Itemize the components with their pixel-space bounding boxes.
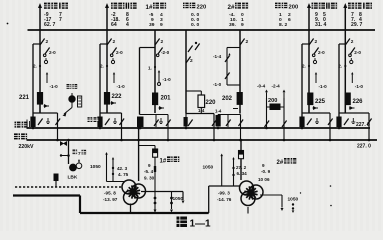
wire T1 tertiary branch — [139, 146, 155, 150]
svg-text:31. 4: 31. 4 — [315, 22, 326, 28]
svg-text:-1-0: -1-0 — [50, 84, 59, 89]
bus-tie 200 left riser with arrow -0-4 — [257, 84, 269, 129]
svg-text:3: 3 — [160, 17, 163, 23]
svg-text:2: 2 — [190, 58, 193, 64]
bus 北母 (north 220kV bus) — [27, 139, 378, 141]
bus voltage reading north — [357, 143, 371, 149]
wire T1 10kV drop B glyphs — [154, 166, 157, 213]
breaker T1 35kV — [153, 149, 158, 213]
svg-text:1—1: 1—1 — [190, 219, 212, 230]
svg-text:7: 7 — [78, 151, 81, 156]
svg-text:1050: 1050 — [90, 164, 101, 170]
svg-text:1: 1 — [279, 12, 282, 18]
wire: 220kV line corridor (top horizontal) — [28, 29, 376, 31]
transformer bay label 2#主变 with readings — [228, 3, 249, 29]
svg-text:-2-4: -2-4 — [272, 84, 281, 89]
transformer T2 (2#主变) — [240, 181, 264, 206]
station PT tap label — [67, 84, 78, 89]
feeder arrow and label 黔西I线 with readings — [343, 3, 372, 30]
station PT symbol — [69, 93, 82, 108]
breaker 200 (horizontal) — [265, 98, 285, 141]
breaker 225 — [307, 93, 325, 114]
svg-text:200: 200 — [268, 98, 277, 104]
bay 2#主变 bus selector — [216, 115, 244, 142]
bus-tie 220 upper switches — [186, 30, 200, 114]
svg-text:201: 201 — [161, 96, 172, 102]
bay 2#主变 main line — [240, 30, 249, 114]
bus 10kV dashed — [15, 186, 122, 188]
wire T1 10kV drop A — [170, 192, 173, 213]
wire PT to south bus — [63, 108, 73, 117]
breaker T2 35kV — [239, 151, 244, 159]
wire riser to T2 low side — [209, 186, 241, 213]
svg-text:7: 7 — [59, 17, 62, 23]
svg-text:4. 75: 4. 75 — [118, 172, 129, 177]
svg-text:227. 0: 227. 0 — [357, 143, 371, 149]
svg-text:227. 8: 227. 8 — [356, 122, 370, 128]
feeder arrow and label 大方I线 with P/Q/I readings — [38, 3, 68, 30]
wire T1 HV feed — [137, 127, 140, 181]
wire LBK tap riser — [60, 139, 70, 164]
bay 大方II线 switches and legs — [97, 30, 125, 141]
bay 1#主变 bypass leg — [140, 48, 156, 115]
svg-text:220: 220 — [197, 4, 207, 10]
svg-text:2-0: 2-0 — [116, 50, 123, 55]
svg-text:-14. 76: -14. 76 — [217, 197, 232, 202]
svg-text:-99. 3: -99. 3 — [218, 191, 230, 196]
svg-text:2: 2 — [246, 39, 249, 45]
svg-text:9: 9 — [262, 163, 265, 168]
wire 10kV solid feeder L-shape — [13, 196, 209, 214]
svg-text:2: 2 — [288, 12, 291, 18]
label 1050 T2 left — [203, 165, 214, 171]
label 220kV — [19, 144, 35, 150]
ground switch -2-0 — [156, 48, 169, 57]
svg-text:1050: 1050 — [203, 165, 214, 171]
svg-text:-13. 97: -13. 97 — [103, 197, 118, 202]
svg-text:1.: 1. — [148, 66, 152, 71]
svg-text:2-0: 2-0 — [354, 50, 361, 55]
svg-text:9. 30: 9. 30 — [144, 176, 155, 181]
svg-text:1-4: 1-4 — [198, 108, 205, 113]
bay 黔西II线 switches and legs — [299, 30, 332, 141]
T1 readings left — [103, 191, 118, 203]
svg-text:9: 9 — [151, 17, 154, 23]
svg-text:1050: 1050 — [173, 196, 184, 202]
bay 2#主变 bypass loop — [213, 48, 240, 88]
bus 南母 (south 220kV bus) — [27, 120, 371, 129]
svg-text:0. 0: 0. 0 — [191, 17, 199, 23]
station transformer LBK — [68, 159, 82, 181]
label 1050 at T2 10kV — [288, 197, 299, 203]
svg-text:1: 1 — [241, 17, 244, 23]
bus-tie 200 right riser with arrow -2-4 — [272, 84, 287, 141]
bay 1#主变 main line — [155, 30, 164, 113]
svg-text:2: 2 — [161, 39, 164, 45]
svg-text:226: 226 — [353, 99, 364, 105]
svg-text:1#: 1# — [146, 4, 153, 11]
svg-text:8. 2: 8. 2 — [279, 22, 287, 28]
breaker to 10kV dashed bus — [54, 174, 59, 188]
T2 readings 27.2 6.34 — [236, 165, 247, 176]
breaker 220 (open) — [186, 91, 216, 114]
label 2#主变 (transformer) — [277, 158, 297, 166]
svg-text:220kV: 220kV — [19, 144, 35, 150]
svg-text:0: 0 — [279, 17, 282, 23]
bus-tie bay label 母联200 with readings — [275, 3, 298, 29]
svg-text:27. 2: 27. 2 — [236, 165, 247, 170]
svg-text:221: 221 — [19, 95, 30, 101]
svg-text:0. 0: 0. 0 — [191, 12, 199, 18]
feeder arrow and label 大方II线 with readings — [105, 3, 137, 30]
svg-text:-1-0: -1-0 — [213, 82, 222, 87]
svg-text:-95. 8: -95. 8 — [104, 191, 116, 196]
scan speck — [7, 23, 332, 207]
svg-text:6. 34: 6. 34 — [237, 171, 248, 176]
T1 35kV risers with arrows — [105, 152, 114, 182]
bay 大方I线 switches and legs — [30, 30, 60, 141]
svg-text:2#: 2# — [277, 160, 284, 166]
svg-text:2-0: 2-0 — [49, 50, 56, 55]
svg-text:9: 9 — [241, 22, 244, 28]
breaker 222 — [104, 92, 122, 113]
svg-text:42. 3: 42. 3 — [117, 166, 128, 171]
svg-text:2.: 2. — [33, 64, 37, 69]
wire T2 bottom lead — [247, 207, 249, 214]
bay 1#主变 bus selector — [137, 115, 171, 142]
svg-text:-5. 4: -5. 4 — [144, 169, 154, 174]
svg-text:0. 0: 0. 0 — [191, 22, 199, 28]
caption 图1-1 — [177, 217, 212, 230]
svg-text:2: 2 — [351, 39, 354, 45]
bay 黔西I线 switches and legs — [336, 30, 371, 141]
node 1. — [148, 66, 156, 71]
svg-text:4: 4 — [126, 22, 129, 28]
svg-text:-0-4: -0-4 — [257, 84, 266, 89]
label 4BH7 — [73, 150, 87, 157]
svg-text:10.: 10. — [230, 17, 237, 23]
svg-text:-1-0: -1-0 — [319, 84, 328, 89]
svg-text:222: 222 — [112, 94, 123, 100]
T1 readings right — [144, 163, 155, 181]
wire T2 10kV lead — [260, 195, 284, 211]
breaker 201 — [152, 93, 171, 111]
svg-text:2#: 2# — [228, 4, 235, 11]
T1 readings 42.3 4.75 — [117, 166, 129, 177]
svg-text:2: 2 — [46, 39, 49, 45]
svg-text:2: 2 — [113, 39, 116, 45]
T2 35kV risers with arrows — [220, 154, 234, 187]
svg-text:2-0: 2-0 — [318, 50, 325, 55]
bus voltage reading south — [356, 122, 370, 128]
svg-text:9: 9 — [148, 163, 151, 168]
svg-text:9: 9 — [160, 22, 163, 28]
breaker 202 — [215, 92, 243, 114]
svg-text:1#: 1# — [160, 159, 167, 165]
svg-text:39.: 39. — [229, 22, 236, 28]
svg-text:LBK: LBK — [68, 175, 78, 181]
svg-text:-1-0: -1-0 — [163, 77, 172, 82]
svg-text:225: 225 — [315, 99, 326, 105]
wire T1 35kV bus — [107, 181, 125, 183]
transformer bay label 1#主变 with readings — [146, 3, 167, 29]
svg-text:0: 0 — [241, 12, 244, 18]
breaker 226 — [345, 93, 364, 114]
svg-text:1050: 1050 — [288, 197, 299, 203]
svg-text:2.: 2. — [302, 64, 306, 69]
svg-text:6: 6 — [288, 17, 291, 23]
wire T2 HV feed — [240, 139, 243, 180]
svg-text:-1-0: -1-0 — [117, 84, 126, 89]
breaker 221 — [19, 92, 49, 113]
svg-text:4: 4 — [160, 12, 163, 18]
T2 readings left — [217, 191, 232, 203]
T2 readings right — [258, 163, 271, 182]
label 1#主变 (transformer) — [160, 156, 180, 164]
svg-text:202: 202 — [222, 96, 233, 102]
node 南母 label — [15, 122, 28, 128]
svg-text:2: 2 — [315, 39, 318, 45]
svg-text:-5: -5 — [149, 12, 154, 18]
svg-text:-4.: -4. — [229, 12, 235, 18]
bus-tie 220 selector — [184, 108, 217, 141]
svg-text:-2-0: -2-0 — [161, 50, 170, 55]
wire T2 drop glyphs — [292, 203, 295, 213]
svg-text:62. 7: 62. 7 — [44, 22, 55, 28]
ground switch -1-0 — [158, 70, 172, 86]
svg-text:-0. 9: -0. 9 — [261, 169, 271, 174]
svg-text:220: 220 — [206, 100, 217, 106]
node 北母 label — [14, 133, 27, 139]
svg-text:64: 64 — [111, 22, 117, 28]
svg-text:1-4: 1-4 — [215, 109, 222, 114]
bus-tie bay label 母联220 with readings — [183, 3, 206, 29]
svg-text:-1-4: -1-4 — [213, 54, 222, 59]
label 1050 left — [90, 164, 101, 170]
label near bus (bay2 selector) — [88, 117, 99, 122]
svg-text:-1-0: -1-0 — [355, 84, 364, 89]
svg-text:10 06: 10 06 — [258, 177, 270, 182]
svg-text:39: 39 — [149, 22, 155, 28]
label 1050 at T1 10kV — [173, 196, 184, 202]
svg-text:200: 200 — [289, 4, 299, 10]
wire T1 10kV lead — [131, 192, 185, 214]
svg-text:2.: 2. — [100, 64, 104, 69]
transformer T1 (1#主变) — [122, 180, 146, 205]
feeder arrow and label 黔西II线 with readings — [307, 3, 337, 30]
svg-text:2.: 2. — [338, 64, 342, 69]
svg-text:29. 7: 29. 7 — [351, 22, 362, 28]
